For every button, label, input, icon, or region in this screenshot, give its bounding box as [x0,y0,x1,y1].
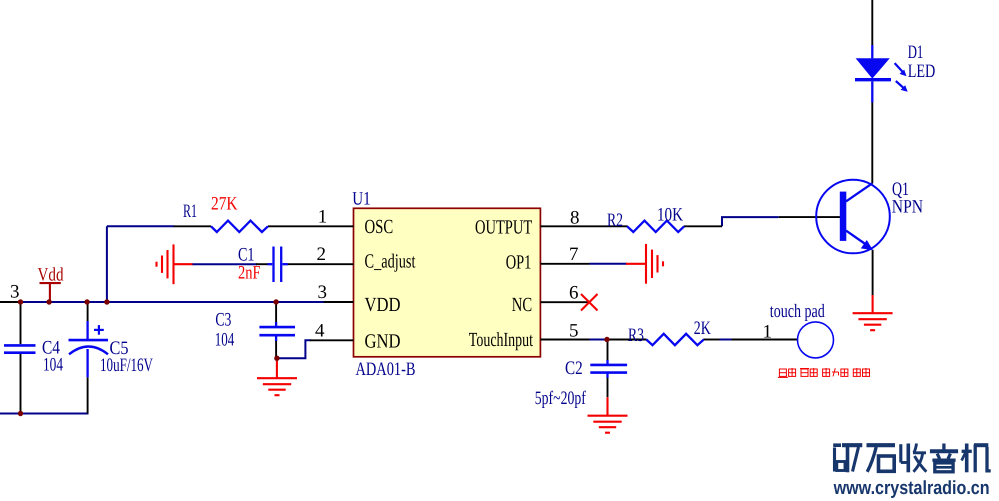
capacitor C1 [268,247,288,283]
wire LED to Q1 collector [871,103,873,184]
svg-text:VDD: VDD [365,294,401,316]
svg-text:1: 1 [763,322,773,343]
svg-text:2nF: 2nF [238,263,261,284]
capacitor C3 [259,322,295,341]
wire C2 bottom lead [607,377,609,397]
wire pin 7 OP1 stub [540,263,589,265]
power ground at C3 [257,358,297,395]
svg-text:2: 2 [317,244,327,265]
svg-text:C2: C2 [565,358,583,379]
wire LED top supply [871,0,873,45]
no-connect X at pin 6 [581,294,598,311]
svg-text:U1: U1 [352,189,370,210]
svg-text:www.crystalradio.cn: www.crystalradio.cn [833,478,990,499]
junction C4 bottom [18,411,23,416]
junction C3 top [273,299,278,304]
junction Vdd tap [46,299,51,304]
svg-text:3: 3 [10,282,20,303]
svg-text:NPN: NPN [892,197,924,218]
wire R3 to touchpad [720,339,732,341]
svg-text:2K: 2K [694,318,711,339]
wire R1 left stub [174,225,212,227]
svg-text:D1: D1 [908,42,924,63]
svg-text:10uF/16V: 10uF/16V [100,355,153,376]
svg-text:C_adjust: C_adjust [365,251,416,273]
svg-text:R3: R3 [628,325,644,346]
wire C3 top lead [275,302,277,322]
wire pin 8 OUTPUT to R2 [540,225,627,227]
capacitor C5 electrolytic [69,321,109,377]
wire R3 right stub [704,339,720,341]
capacitor C2 [590,360,627,378]
svg-text:8: 8 [570,208,580,229]
svg-text:6: 6 [569,283,579,304]
wire C5 top lead [87,302,89,321]
wire C2 top lead [607,340,609,365]
wire VDD rail [18,301,324,303]
wire Q1 base pin [779,216,843,218]
wire C4 bottom lead [20,354,22,414]
svg-text:NC: NC [512,294,532,316]
svg-text:ADA01-B: ADA01-B [356,359,416,380]
svg-text:C3: C3 [215,310,231,331]
svg-text:touch pad: touch pad [770,301,825,322]
logo char ji [962,444,991,473]
svg-text:R1: R1 [183,201,197,222]
svg-text:3: 3 [318,282,328,303]
junction pin5 node [604,337,609,342]
svg-text:LED: LED [908,61,936,82]
touchpad electrode [798,322,834,358]
resistor R3 [646,334,704,345]
junction C4 top [18,299,23,304]
svg-text:104: 104 [43,355,63,376]
junction R1 branch [104,299,109,304]
wire pin4 step [277,340,311,358]
svg-text:5: 5 [569,320,579,341]
svg-text:OP1: OP1 [506,251,532,273]
wire pin 6 NC stub [540,301,588,303]
svg-text:4: 4 [315,320,325,341]
svg-text:TouchInput: TouchInput [469,329,534,351]
wire R2 to Q1 base [722,217,779,226]
svg-text:GND: GND [365,331,401,353]
svg-text:Vdd: Vdd [38,264,64,285]
power ground at C1 [157,244,193,284]
resistor R1 [211,221,268,232]
wire touchpad pin 1 [732,339,798,341]
wire C1 to ground [192,263,257,265]
logo text: crystal radio (CJK strokes) [833,444,991,473]
wire pin 1 OSC [268,225,354,227]
logo char shou [901,444,927,473]
wire R1 branch vertical [106,226,108,302]
wire C5 bottom lead [87,377,89,413]
svg-text:27K: 27K [211,193,238,214]
power ground at C2 [588,397,628,433]
wire pin 3 VDD stub [324,301,354,303]
transistor Q1 [816,180,890,254]
component body U1 [354,208,541,356]
wire pin 4 GND stub [310,339,354,341]
power ground at OP1 pin 7 [626,244,663,284]
wire Q1 emitter to ground [872,250,874,296]
svg-text:R2: R2 [607,210,623,231]
svg-text:104: 104 [215,329,235,350]
logo char shi [867,445,896,472]
svg-text:OSC: OSC [365,216,394,238]
resistor R2 [627,221,684,232]
svg-text:1: 1 [318,206,328,227]
wire left connector pin 3 stub [0,301,18,303]
svg-text:OUTPUT: OUTPUT [475,216,532,238]
svg-text:7: 7 [569,244,579,265]
power ground at Q1 emitter [853,295,893,330]
logo char kuang [833,445,862,472]
wire pin5 node [590,339,611,341]
wire C3 bottom lead [275,340,277,358]
capacitor C4 [4,345,36,352]
junction C5 top [84,299,89,304]
svg-text:5pf~20pf: 5pf~20pf [535,388,586,409]
logo char yin [930,444,958,472]
wire C4 top lead [20,302,22,344]
wire R3 left stub [608,339,647,341]
wire pin 5 TouchInput stub [540,339,589,341]
wire R2 right stub [684,225,722,227]
wire pin7 to ground [590,263,628,265]
diode D1 LED [855,45,908,103]
note red chinese: electrode with conductivity [778,368,870,377]
junction C3 bottom node [274,356,279,361]
svg-text:10K: 10K [657,205,683,226]
wire C1 left black stub [256,263,268,265]
wire R1 branch horizontal [107,225,174,227]
wire ground bus bottom [0,413,89,415]
power symbol Vdd [40,283,61,302]
wire pin 2 C_adjust [288,263,354,265]
